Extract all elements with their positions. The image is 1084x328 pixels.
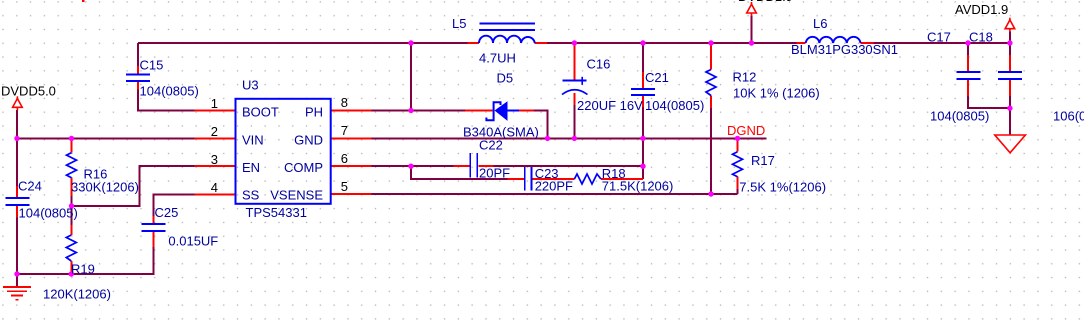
power symbol AVDD1.9 arrow — [1005, 18, 1015, 32]
R12 pin leads — [710, 43, 712, 70]
pin 6 COMP stub — [331, 165, 372, 167]
capacitor C16 polarized — [562, 77, 588, 95]
svg-text:71.5K(1206): 71.5K(1206) — [602, 178, 674, 193]
svg-text:4.7UH: 4.7UH — [479, 51, 516, 66]
svg-text:AVDD1.9: AVDD1.9 — [955, 2, 1008, 17]
wire SS to C25 — [154, 195, 195, 217]
resistor R19 — [66, 235, 76, 261]
node PH junction — [408, 108, 413, 113]
C18 top lead wire — [1009, 43, 1011, 55]
C17 pin leads — [967, 55, 969, 72]
wire C17 bottom to C18 — [968, 96, 1010, 108]
ground symbol GND bars left — [3, 287, 31, 300]
wire R12 column — [710, 43, 712, 194]
svg-text:2: 2 — [211, 124, 218, 139]
svg-text:C24: C24 — [18, 179, 42, 194]
wire PH vertical — [410, 43, 412, 111]
node VIN rail / R16 — [69, 136, 74, 141]
svg-text:7: 7 — [341, 123, 348, 138]
wire top VOUT rail — [138, 42, 468, 44]
ground symbol earth triangle right — [995, 135, 1026, 153]
node VIN rail / DVDD5.0 C24 — [14, 136, 19, 141]
svg-text:8: 8 — [341, 95, 348, 110]
C24 pin leads — [16, 186, 18, 198]
capacitor C15 — [126, 75, 150, 82]
svg-text:5: 5 — [341, 179, 348, 194]
wire bottom gnd rail — [17, 247, 154, 274]
svg-text:D5: D5 — [497, 70, 514, 85]
svg-text:U3: U3 — [242, 78, 259, 93]
diode D5 schottky B340A — [486, 101, 519, 121]
wire D5 anode to GND row — [534, 111, 548, 139]
svg-text:C21: C21 — [645, 70, 669, 85]
inductor L5 core bars — [479, 23, 535, 30]
C15 pin leads — [137, 66, 139, 74]
svg-text:6: 6 — [341, 151, 348, 166]
node top rail / C16 — [572, 40, 577, 45]
wire COMP vertical to GND — [642, 138, 644, 179]
svg-text:C16: C16 — [587, 56, 611, 71]
L6 pin leads — [797, 42, 806, 44]
svg-text:220UF 16V: 220UF 16V — [577, 98, 643, 113]
pin 1 BOOT stub — [195, 110, 236, 112]
wire C15 top — [137, 43, 139, 66]
svg-text:104(0805): 104(0805) — [19, 206, 78, 221]
wire R17 bottom jog — [711, 193, 738, 195]
wire GND row — [372, 137, 767, 139]
node top rail / C18 AVDD — [1007, 40, 1012, 45]
node GND row / D5 — [545, 136, 550, 141]
svg-text:VIN: VIN — [242, 132, 264, 147]
svg-text:PH: PH — [305, 104, 323, 119]
svg-text:20PF: 20PF — [479, 166, 510, 181]
svg-text:BOOT: BOOT — [242, 104, 279, 119]
C21 pin leads — [642, 72, 644, 89]
R17 pin leads — [737, 138, 739, 151]
node COMP / C22 tap — [408, 164, 413, 169]
capacitor C25 — [142, 224, 166, 231]
wire C18 bottom to ground — [1009, 96, 1011, 135]
IC U3 TPS54331 body — [236, 99, 331, 204]
svg-text:VSENSE: VSENSE — [270, 188, 323, 203]
wire R16 bottom to node — [71, 196, 73, 206]
pin 8 PH stub — [331, 110, 372, 112]
node bottom rail / C24 gnd — [14, 271, 19, 276]
C25 pin leads — [153, 216, 155, 224]
svg-text:SS: SS — [242, 188, 260, 203]
resistor R16 — [67, 153, 77, 178]
node top rail / DVDD1.9 — [749, 40, 754, 45]
C23 pin leads — [507, 178, 523, 180]
node VSENSE / R12 R17 — [708, 191, 713, 196]
wire top rail L5 to L6 — [547, 42, 797, 44]
svg-text:0.015UF: 0.015UF — [168, 234, 218, 249]
resistor R18 horizontal — [574, 174, 601, 184]
svg-text:DGND: DGND — [727, 123, 765, 138]
wire VIN rail left — [17, 138, 195, 140]
svg-text:330K(1206): 330K(1206) — [71, 180, 139, 195]
wire RC row right — [601, 178, 643, 180]
svg-text:104(0805): 104(0805) — [930, 109, 989, 124]
power symbol DVDD1.9 arrow top — [747, 2, 757, 16]
wire PH to junction — [372, 110, 465, 112]
inductor L5 coil — [479, 36, 535, 43]
R19 pin leads — [70, 225, 72, 235]
wire top rail L6 to C18 — [873, 42, 1010, 44]
wire C24 branch — [16, 139, 18, 275]
pin 3 EN stub — [195, 165, 236, 167]
wire R19 top lead — [71, 206, 73, 225]
D5 pin leads — [465, 110, 493, 112]
node COMP / gnd vertical — [640, 164, 645, 169]
C22 pin leads — [454, 165, 470, 167]
node top rail / C17 — [965, 40, 970, 45]
svg-text:DVDD1.9: DVDD1.9 — [738, 0, 793, 4]
node bottom rail / R19 — [69, 271, 74, 276]
svg-text:3: 3 — [211, 152, 218, 167]
wire comp RC row — [411, 166, 507, 179]
svg-text:L5: L5 — [452, 16, 466, 31]
svg-text:7.5K 1%(1206): 7.5K 1%(1206) — [739, 180, 826, 195]
wire VSENSE row — [372, 193, 711, 195]
node GND row / C21 comp — [640, 136, 645, 141]
R18 pin leads — [547, 178, 574, 180]
C18 pin leads — [1009, 55, 1011, 72]
svg-text:BLM31PG330SN1: BLM31PG330SN1 — [791, 42, 898, 57]
svg-text:R12: R12 — [733, 70, 757, 85]
capacitor C24 — [6, 198, 30, 205]
svg-text:L6: L6 — [813, 16, 827, 31]
svg-text:R17: R17 — [751, 153, 775, 168]
svg-text:COMP: COMP — [284, 160, 323, 175]
wire DVDD5.0 drop — [16, 110, 18, 139]
svg-text:C17: C17 — [927, 30, 951, 45]
svg-text:C15: C15 — [140, 58, 164, 73]
svg-text:4: 4 — [211, 180, 218, 195]
C17 top lead wire — [967, 43, 969, 55]
R16 pin leads — [71, 139, 73, 153]
svg-text:220PF: 220PF — [535, 178, 573, 193]
svg-text:C18: C18 — [969, 30, 993, 45]
wire AVDD drop — [1009, 32, 1011, 44]
L5 pin leads — [468, 42, 480, 44]
wire DVDD1.9 drop — [751, 16, 753, 44]
clipped power pin artifact top left — [82, 0, 85, 2]
node top rail / PH vertical — [408, 40, 413, 45]
capacitor C21 — [631, 89, 655, 95]
wire gnd stub — [16, 274, 18, 287]
node GND row / C16 — [572, 136, 577, 141]
wire C16 bottom — [573, 105, 575, 139]
power symbol DVDD5.0 arrow — [13, 96, 23, 110]
capacitor C18 — [998, 72, 1022, 79]
svg-text:EN: EN — [242, 160, 260, 175]
svg-text:C25: C25 — [155, 205, 179, 220]
svg-text:120K(1206): 120K(1206) — [43, 287, 111, 302]
resistor R17 — [733, 152, 743, 177]
wire C21 bottom — [642, 107, 644, 138]
node EN / R16 R19 — [69, 203, 74, 208]
wire EN jog — [72, 166, 195, 206]
node C17 C18 bottom — [1007, 106, 1012, 111]
svg-text:10K 1% (1206): 10K 1% (1206) — [733, 85, 820, 100]
svg-text:C22: C22 — [479, 138, 503, 153]
capacitor C22 — [470, 153, 477, 178]
pin 5 VSENSE stub — [331, 193, 372, 195]
node top rail / C21 — [640, 40, 645, 45]
inductor L6 coil — [806, 37, 861, 43]
node top rail / R12 — [708, 40, 713, 45]
svg-text:1: 1 — [211, 96, 218, 111]
svg-text:GND: GND — [294, 132, 323, 147]
resistor R12 — [706, 70, 716, 96]
pin 4 SS stub — [195, 194, 236, 196]
wire C17 top — [967, 43, 969, 55]
node GND row / R17 — [735, 136, 740, 141]
svg-text:106(0805): 106(0805) — [1053, 109, 1084, 124]
svg-text:R19: R19 — [71, 261, 95, 276]
svg-text:104(0805): 104(0805) — [140, 84, 199, 99]
pin 2 VIN stub — [195, 138, 236, 140]
capacitor C17 — [957, 72, 981, 79]
wire COMP row — [372, 165, 643, 167]
capacitor C23 — [525, 167, 532, 191]
wire C21 top — [642, 43, 644, 72]
wire C15 bottom to pin1 — [138, 90, 195, 111]
R17 bottom lead maroon part — [737, 189, 739, 194]
svg-text:DVDD5.0: DVDD5.0 — [1, 84, 56, 99]
C16 pin leads — [573, 44, 575, 80]
svg-text:TPS54331: TPS54331 — [246, 205, 307, 220]
svg-text:104(0805): 104(0805) — [645, 98, 704, 113]
pin 7 GND stub — [331, 137, 372, 139]
